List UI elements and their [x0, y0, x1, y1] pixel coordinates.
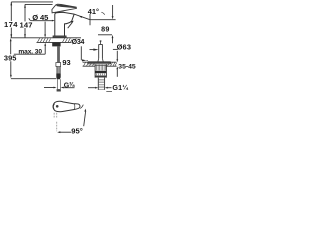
flexible hose lines — [57, 79, 60, 89]
svg-text:Ø 45: Ø 45 — [32, 13, 49, 22]
svg-text:35-45: 35-45 — [118, 63, 136, 70]
spout underside — [65, 21, 72, 36]
dim max30 lower arrow shaft — [44, 45, 46, 54]
dim 89 bottom ref line — [98, 34, 112, 36]
drain body sides — [95, 64, 106, 77]
arrow 174 top — [10, 2, 12, 5]
dim 395 shaft — [10, 41, 12, 75]
lever pivot hole — [56, 105, 59, 108]
drain body thread ticks — [97, 65, 106, 71]
threaded hose section — [57, 66, 60, 73]
arrow 41deg on diagonal — [79, 16, 82, 18]
dim 35-45 top shaft — [116, 51, 118, 60]
arrow 89 bottom — [112, 35, 114, 38]
arrow 147 bottom — [24, 34, 26, 37]
G114 text underline — [106, 90, 112, 92]
arrow max30 up — [44, 43, 46, 46]
spout mouth face — [72, 14, 75, 21]
dia45 leader underline — [29, 18, 53, 21]
svg-text:G1¼: G1¼ — [112, 83, 128, 92]
arrow 35-45 down — [116, 59, 118, 62]
arrow dia63 at rod — [93, 49, 98, 51]
tailpipe thread ticks — [99, 79, 105, 89]
dim 35-45 bottom shaft — [116, 69, 118, 77]
svg-text:89: 89 — [101, 24, 110, 33]
dim 174 ref line — [11, 1, 53, 3]
arrow max30 down — [44, 35, 46, 38]
G38 left arrow shaft — [44, 87, 54, 89]
arrow 95deg left — [57, 131, 60, 133]
hose fitting nut — [56, 63, 61, 67]
faucet base escutcheon — [53, 36, 66, 38]
arrow 395 down — [10, 75, 12, 78]
41deg arc tick — [101, 12, 104, 14]
svg-text:93: 93 — [62, 58, 70, 67]
counter bottom line — [37, 41, 72, 43]
hose end cap G3/8 — [57, 89, 61, 91]
drain deck bottom lines — [83, 65, 117, 67]
max30 underline leader — [14, 53, 45, 55]
dia63 right segment — [113, 48, 117, 50]
arrow 147 top — [24, 4, 26, 7]
svg-text:174: 174 — [4, 20, 18, 29]
dim 147 ref line — [25, 3, 53, 5]
svg-text:max. 30: max. 30 — [18, 48, 42, 55]
lever axis dashes — [53, 113, 55, 118]
svg-text:G⅜: G⅜ — [64, 81, 75, 89]
drain pull rod — [100, 41, 102, 45]
95deg leader up line — [84, 112, 86, 127]
G38 right shaft underline — [63, 87, 74, 89]
arrow 89 top — [112, 16, 114, 19]
counter top line — [11, 37, 81, 39]
arrow 174 bottom — [10, 34, 12, 37]
mounting nut below counter — [52, 43, 60, 47]
spout height ref line — [90, 19, 116, 21]
spout top edge — [64, 13, 74, 15]
arrow dia45 — [52, 20, 55, 22]
svg-text:95°: 95° — [71, 126, 82, 135]
dia34 leader vertical — [80, 46, 82, 60]
lever tip inner line — [73, 104, 76, 110]
hose connector — [56, 73, 60, 79]
drain stem cylinder — [99, 44, 103, 58]
drain body lower band — [95, 76, 106, 78]
detached lever outline — [53, 101, 80, 111]
95deg leader left shaft — [60, 131, 71, 133]
dim 147 vertical line — [24, 4, 26, 37]
dim 395 ref line — [11, 78, 57, 80]
drain body mid ticks — [97, 74, 105, 76]
text 147 — [20, 21, 34, 28]
threaded stud — [57, 46, 60, 62]
drain body nut band — [95, 71, 106, 73]
arrow G114 right — [95, 87, 98, 89]
dim 89 top arrow shaft — [112, 5, 114, 16]
drain tailpipe — [98, 78, 104, 90]
faucet cartridge cap line — [55, 11, 65, 13]
svg-text:Ø34: Ø34 — [72, 39, 85, 46]
counter hatch left — [38, 38, 51, 42]
arrow G114 left — [105, 87, 108, 89]
arrow dia34 — [82, 59, 86, 61]
dim max30 upper arrow line — [44, 22, 46, 35]
lever grip dark wedge — [56, 5, 76, 9]
arrow 35-45 up — [116, 66, 118, 69]
faucet lever handle — [52, 4, 77, 13]
G114 opposing arrow shaft — [88, 87, 95, 89]
svg-text:147: 147 — [19, 21, 32, 30]
drain flange underside — [95, 64, 107, 66]
drain deck hatch — [84, 62, 117, 66]
flow direction arrow at spout — [68, 23, 72, 28]
lever tip flag arc — [80, 105, 83, 109]
svg-text:Ø63: Ø63 — [117, 42, 132, 51]
drain rod knob — [100, 40, 102, 41]
41deg extension diagonal — [74, 14, 90, 20]
faucet body outline — [55, 12, 65, 36]
svg-text:395: 395 — [4, 53, 17, 62]
svg-text:41°: 41° — [88, 7, 99, 16]
arrow G38 left — [54, 87, 57, 89]
dim 89 bottom arrow shaft — [112, 38, 114, 44]
drain flange — [88, 62, 111, 64]
dia34 leader tail — [86, 59, 88, 61]
drain stem flare — [98, 58, 103, 61]
G114 leader shaft — [108, 87, 112, 89]
arrow 95deg up — [84, 109, 86, 112]
drain deck top lines — [83, 61, 117, 63]
dia63 left arrow shaft — [90, 49, 94, 51]
arrow 395 up — [10, 38, 12, 41]
41deg vertical stub — [89, 14, 91, 25]
dim 174 vertical line — [10, 2, 12, 38]
counter hatch right — [63, 38, 72, 42]
arrow G38 right — [61, 87, 64, 89]
text 174 — [4, 21, 19, 28]
